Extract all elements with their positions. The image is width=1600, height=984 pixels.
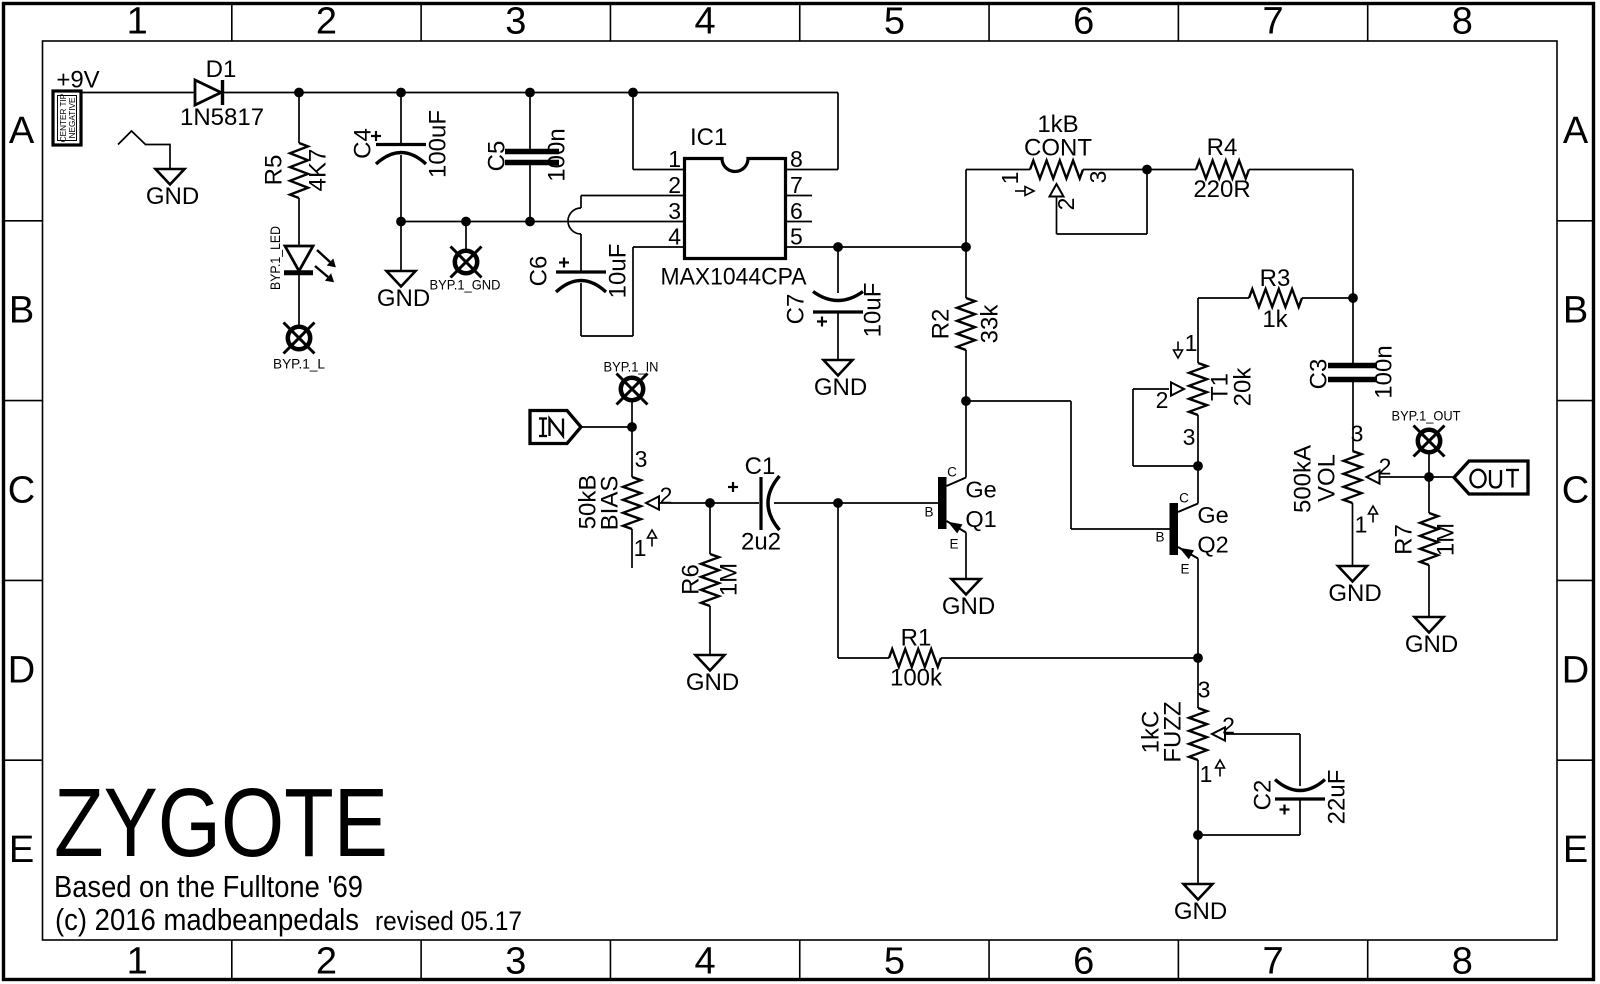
- svg-text:revised 05.17: revised 05.17: [375, 906, 522, 936]
- svg-text:C3: C3: [1306, 359, 1333, 390]
- svg-text:C: C: [1562, 470, 1589, 512]
- svg-text:6: 6: [1073, 941, 1094, 983]
- svg-text:CENTER TIP: CENTER TIP: [59, 93, 68, 142]
- svg-text:2: 2: [1222, 713, 1235, 739]
- svg-text:1k: 1k: [1262, 306, 1288, 333]
- svg-text:2u2: 2u2: [741, 529, 781, 556]
- svg-text:FUZZ: FUZZ: [1160, 701, 1187, 762]
- svg-text:2: 2: [668, 172, 681, 198]
- svg-text:A: A: [9, 110, 35, 152]
- svg-text:GND: GND: [146, 183, 199, 210]
- svg-text:R3: R3: [1260, 265, 1291, 292]
- svg-text:33k: 33k: [977, 304, 1004, 344]
- svg-text:3: 3: [1351, 421, 1364, 447]
- svg-text:3: 3: [1198, 677, 1211, 703]
- svg-text:6: 6: [1073, 1, 1094, 43]
- svg-text:3: 3: [1183, 424, 1196, 450]
- svg-text:IC1: IC1: [690, 124, 727, 151]
- svg-text:2: 2: [1053, 198, 1079, 211]
- svg-text:2: 2: [316, 941, 337, 983]
- svg-text:GND: GND: [1174, 898, 1227, 925]
- svg-text:GND: GND: [1405, 631, 1458, 658]
- svg-text:C7: C7: [783, 294, 810, 325]
- svg-text:10uF: 10uF: [605, 244, 632, 299]
- svg-text:4K7: 4K7: [305, 149, 332, 192]
- svg-text:C: C: [947, 465, 957, 480]
- svg-text:E: E: [9, 829, 34, 871]
- svg-text:5: 5: [884, 1, 905, 43]
- svg-text:8: 8: [790, 146, 803, 172]
- svg-text:2: 2: [1379, 454, 1392, 480]
- svg-text:7: 7: [1262, 941, 1283, 983]
- svg-text:CONT: CONT: [1024, 135, 1092, 162]
- svg-text:5: 5: [790, 224, 803, 250]
- svg-text:100n: 100n: [1371, 345, 1398, 398]
- svg-text:100uF: 100uF: [425, 110, 452, 178]
- svg-text:3: 3: [505, 941, 526, 983]
- svg-text:R2: R2: [928, 309, 955, 340]
- svg-text:1: 1: [668, 146, 681, 172]
- svg-text:C6: C6: [526, 256, 553, 287]
- svg-text:Based on the Fulltone '69: Based on the Fulltone '69: [54, 870, 363, 904]
- svg-text:E: E: [1563, 829, 1588, 871]
- svg-text:GND: GND: [686, 669, 739, 696]
- svg-text:1: 1: [634, 535, 647, 561]
- svg-text:A: A: [1563, 110, 1589, 152]
- svg-text:C: C: [8, 470, 35, 512]
- svg-text:1M: 1M: [1433, 523, 1460, 556]
- svg-text:B: B: [1563, 290, 1588, 332]
- svg-text:ZYGOTE: ZYGOTE: [54, 768, 388, 877]
- svg-text:C: C: [1179, 491, 1189, 506]
- svg-text:MAX1044CPA: MAX1044CPA: [661, 264, 807, 291]
- svg-text:D: D: [8, 649, 35, 691]
- svg-text:100n: 100n: [544, 128, 571, 181]
- svg-text:1: 1: [1185, 330, 1198, 356]
- svg-text:1M: 1M: [716, 563, 743, 596]
- svg-text:3: 3: [668, 198, 681, 224]
- svg-text:2: 2: [660, 483, 673, 509]
- svg-text:NEGATIVE: NEGATIVE: [68, 97, 77, 138]
- svg-text:8: 8: [1452, 1, 1473, 43]
- svg-text:4: 4: [695, 941, 716, 983]
- svg-text:GND: GND: [377, 285, 430, 312]
- svg-text:BIAS: BIAS: [597, 476, 624, 531]
- svg-text:BYP.1_L: BYP.1_L: [273, 356, 325, 372]
- svg-text:2: 2: [1156, 387, 1169, 413]
- svg-text:B: B: [924, 505, 933, 520]
- svg-text:1: 1: [127, 1, 148, 43]
- svg-text:R6: R6: [678, 564, 705, 595]
- svg-text:GND: GND: [1328, 580, 1381, 607]
- svg-text:B: B: [1155, 530, 1164, 545]
- svg-text:E: E: [1180, 562, 1189, 577]
- svg-text:22uF: 22uF: [1324, 770, 1351, 825]
- svg-text:Ge: Ge: [1197, 502, 1228, 528]
- svg-text:Q2: Q2: [1197, 532, 1228, 558]
- svg-text:500kA: 500kA: [1290, 445, 1317, 513]
- svg-text:5: 5: [884, 941, 905, 983]
- svg-text:D: D: [1562, 649, 1589, 691]
- svg-text:R4: R4: [1207, 134, 1238, 161]
- svg-text:4: 4: [695, 1, 716, 43]
- svg-text:2: 2: [316, 1, 337, 43]
- svg-text:3: 3: [505, 1, 526, 43]
- svg-text:1N5817: 1N5817: [180, 104, 264, 131]
- svg-text:6: 6: [790, 198, 803, 224]
- svg-text:10uF: 10uF: [860, 283, 887, 338]
- svg-text:VOL: VOL: [1314, 454, 1341, 502]
- svg-text:(c) 2016 madbeanpedals: (c) 2016 madbeanpedals: [55, 903, 359, 937]
- svg-text:20k: 20k: [1230, 367, 1257, 407]
- svg-text:B: B: [9, 290, 34, 332]
- svg-text:4: 4: [668, 224, 681, 250]
- svg-text:3: 3: [635, 446, 648, 472]
- svg-text:Ge: Ge: [965, 477, 996, 503]
- svg-text:BYP.1_LED: BYP.1_LED: [267, 226, 283, 290]
- svg-text:7: 7: [790, 172, 803, 198]
- svg-text:1: 1: [127, 941, 148, 983]
- svg-text:R1: R1: [901, 625, 932, 652]
- svg-text:1: 1: [1355, 512, 1368, 538]
- svg-text:BYP.1_GND: BYP.1_GND: [430, 277, 501, 293]
- svg-text:1: 1: [997, 172, 1023, 185]
- svg-text:C2: C2: [1250, 780, 1277, 811]
- svg-text:R5: R5: [261, 155, 288, 186]
- svg-text:C1: C1: [745, 453, 776, 480]
- svg-text:220R: 220R: [1193, 176, 1250, 203]
- svg-text:E: E: [949, 537, 958, 552]
- svg-text:GND: GND: [942, 593, 995, 620]
- svg-text:BYP.1_IN: BYP.1_IN: [604, 359, 659, 375]
- svg-text:BYP.1_OUT: BYP.1_OUT: [1392, 408, 1461, 424]
- svg-text:7: 7: [1262, 1, 1283, 43]
- svg-text:GND: GND: [814, 374, 867, 401]
- svg-text:D1: D1: [206, 56, 237, 83]
- svg-text:Q1: Q1: [965, 506, 996, 532]
- svg-text:R7: R7: [1391, 524, 1418, 555]
- svg-text:100k: 100k: [890, 665, 943, 692]
- svg-text:1: 1: [1200, 761, 1213, 787]
- svg-text:8: 8: [1452, 941, 1473, 983]
- svg-text:3: 3: [1085, 171, 1111, 184]
- svg-text:C5: C5: [484, 141, 511, 172]
- svg-text:C4: C4: [350, 128, 377, 159]
